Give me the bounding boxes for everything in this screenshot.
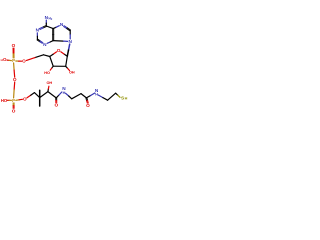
svg-text:P: P [12, 58, 15, 63]
svg-text:OH: OH [46, 81, 52, 85]
bond C4'-C5' [44, 55, 50, 57]
bond N3-C4 [47, 42, 50, 43]
svg-text:P: P [12, 98, 15, 103]
bond CH(OH)-C(=O) [48, 92, 56, 98]
bond CH2-S [116, 93, 118, 95]
svg-text:O: O [12, 108, 16, 113]
svg-text:N: N [69, 39, 73, 44]
bond C(CH3)2-CH(OH) [40, 92, 48, 98]
bond C2'-O2'H [66, 66, 68, 68]
svg-text:H: H [1, 58, 3, 62]
bond HO-P1 [7, 59, 9, 61]
bond N9-C1' (ribose) [69, 44, 70, 50]
bond C8-N9 [69, 30, 71, 34]
svg-text:O: O [3, 57, 7, 62]
bond C(=O)-N (amide 1) [56, 95, 59, 98]
svg-text:O: O [13, 77, 17, 82]
bond C5'-O5' [35, 55, 44, 58]
bond N1-C2 [36, 33, 38, 36]
bond P2-O(ester) [16, 99, 19, 102]
svg-text:H: H [125, 96, 128, 100]
amide 2 C=O [85, 98, 88, 101]
double bond C2=N3 [37, 40, 40, 42]
svg-text:O: O [23, 97, 27, 102]
svg-text:O: O [22, 59, 26, 64]
bond C3'-C2' [53, 65, 65, 67]
bond C(=O)-N (amide 2) [86, 96, 90, 98]
bond CH2-C(CH3)2 [34, 93, 39, 98]
bond O-C(pant.) [27, 95, 31, 98]
bond C4-N9 [53, 40, 63, 43]
bond C2'-C1' [66, 56, 68, 66]
double bond C4=C5 [53, 35, 55, 41]
svg-text:O: O [86, 103, 90, 108]
svg-text:O: O [57, 48, 61, 53]
svg-text:H: H [63, 91, 66, 95]
bond CH2-CH2 (cysteamine) [108, 93, 116, 100]
svg-text:O: O [54, 102, 58, 107]
double bond P2=O [12, 103, 14, 106]
chemical structure: Coenzyme A [0, 0, 130, 130]
bond C4'-C3' [50, 57, 53, 67]
bond P1-O(bridge) [13, 63, 16, 70]
bond CH2-CH2 [72, 94, 81, 99]
bond O(bridge)-P2 [13, 82, 16, 90]
amide 1 C=O [55, 98, 57, 100]
bond CH-OH [47, 89, 50, 92]
bond HO-P2 [7, 99, 9, 101]
double bond P1=O [13, 53, 15, 58]
bond P1-O5' [16, 60, 19, 62]
bond C1'-O4' [64, 54, 67, 56]
bond NH2-C6 [45, 20, 47, 23]
bond C5-N7 [53, 27, 56, 28]
bond C5-C6 [46, 26, 53, 29]
bond CH2-C(=O) [81, 94, 86, 98]
gem-dimethyl bonds (vertical) [39, 90, 41, 106]
bond O4'-C4' [53, 52, 56, 54]
svg-text:HO: HO [44, 71, 50, 75]
bond N-CH2 [66, 93, 69, 96]
bond N-CH2 (cysteamine) [98, 95, 103, 98]
double bond N7=C8 [64, 27, 67, 29]
svg-text:OH: OH [69, 71, 75, 75]
double bond C6=N1 [43, 26, 46, 28]
bond C3'-O3'H [52, 66, 54, 68]
svg-text:O: O [12, 43, 16, 48]
